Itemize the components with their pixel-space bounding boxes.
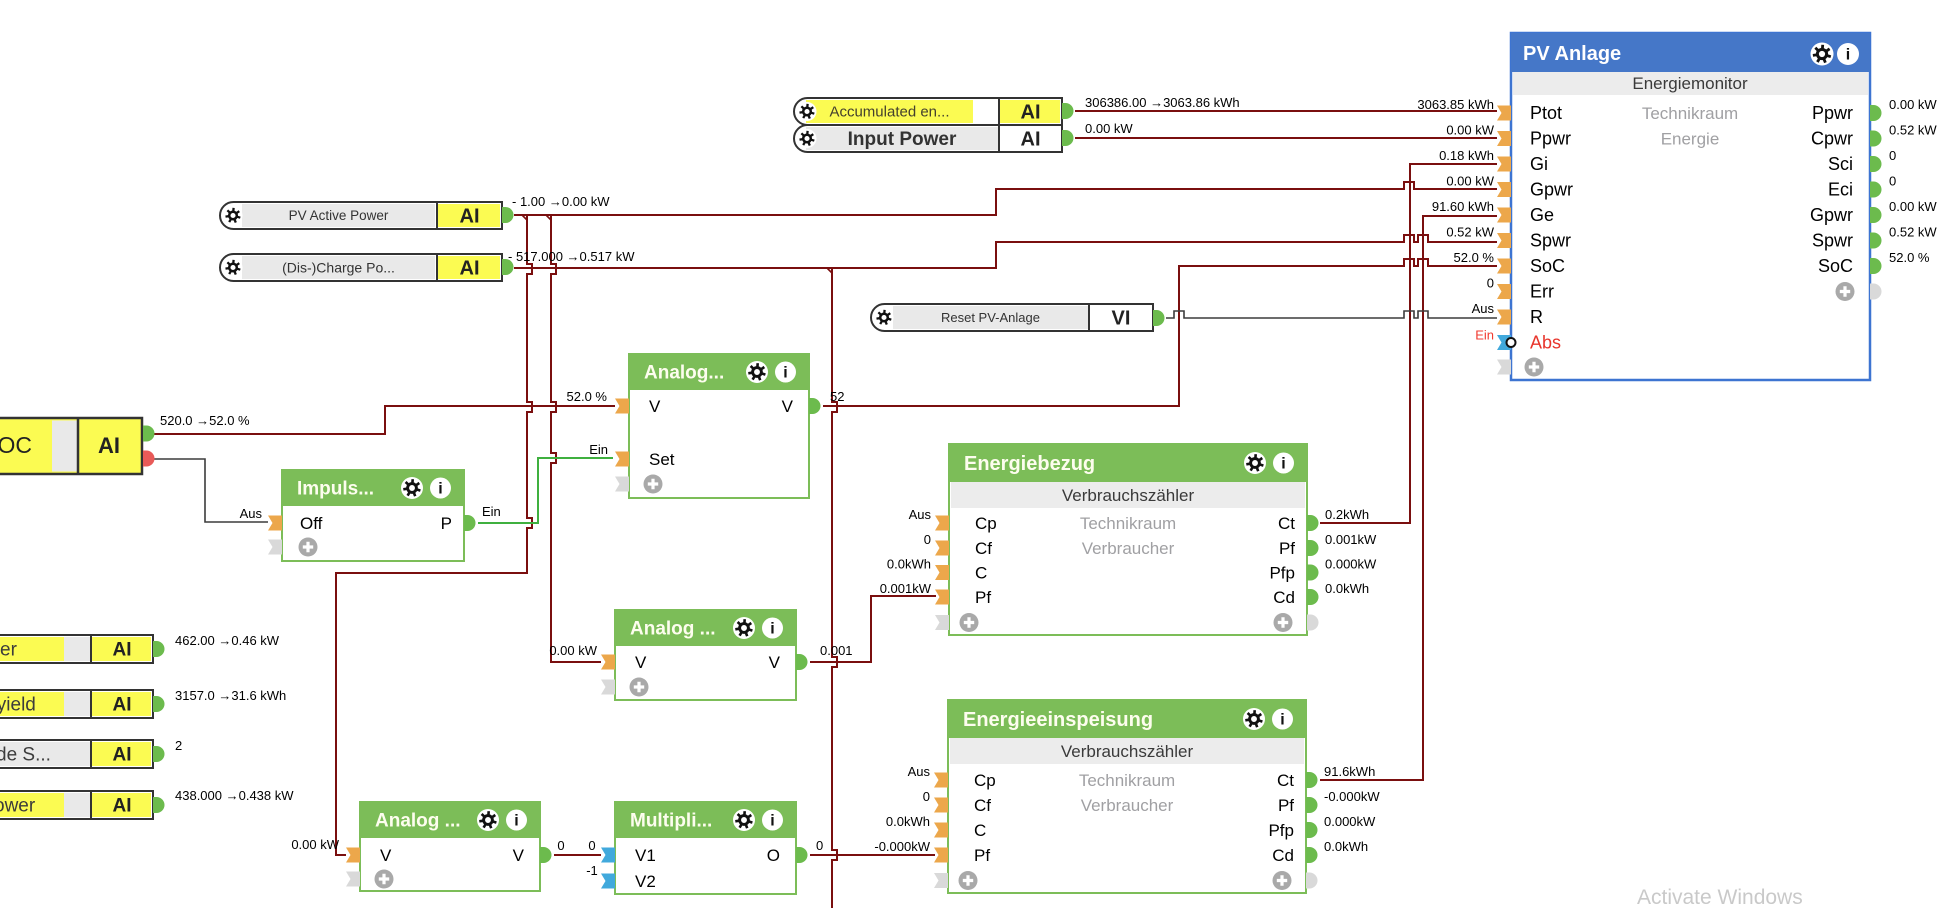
svg-text:V: V	[635, 653, 647, 672]
svg-text:i: i	[1846, 47, 1850, 64]
svg-text:Ge: Ge	[1530, 205, 1554, 225]
function block "Energiebezug" (Verbrauchszaehler)	[949, 444, 1307, 635]
svg-text:Reset PV-Anlage: Reset PV-Anlage	[941, 310, 1040, 325]
svg-text:Pfp: Pfp	[1269, 564, 1295, 583]
svg-text:Impuls...: Impuls...	[297, 478, 374, 499]
block AI "...ower" (cut off)	[0, 791, 153, 819]
block AI "...OC" (SOC, cut off)	[0, 418, 142, 474]
svg-text:-0.000kW: -0.000kW	[1324, 789, 1380, 804]
svg-text:V: V	[513, 846, 525, 865]
svg-text:2: 2	[175, 738, 182, 753]
function block "Impuls..."	[282, 470, 464, 561]
block VI "Reset PV-Anlage"	[871, 304, 1153, 331]
svg-text:Eci: Eci	[1828, 180, 1853, 200]
function block "PV Anlage" (Energiemonitor)	[1511, 33, 1870, 380]
svg-text:V: V	[649, 397, 661, 416]
svg-text:3063.85 kWh: 3063.85 kWh	[1417, 97, 1494, 112]
svg-text:AI: AI	[113, 745, 132, 766]
svg-text:0.18 kWh: 0.18 kWh	[1439, 148, 1494, 163]
svg-text:0: 0	[923, 789, 930, 804]
svg-text:Cf: Cf	[974, 796, 991, 815]
svg-text:0: 0	[924, 532, 931, 547]
svg-text:Verbraucher: Verbraucher	[1081, 796, 1174, 815]
svg-text:de S...: de S...	[0, 745, 51, 766]
svg-text:i: i	[514, 813, 518, 830]
svg-text:V2: V2	[635, 872, 656, 891]
svg-text:Gpwr: Gpwr	[1530, 180, 1573, 200]
wire	[478, 458, 613, 523]
svg-text:SoC: SoC	[1530, 256, 1565, 276]
wire	[514, 182, 1497, 215]
svg-text:Cd: Cd	[1273, 588, 1295, 607]
svg-text:PV Active Power: PV Active Power	[289, 208, 389, 223]
svg-text:AI: AI	[113, 695, 132, 716]
svg-text:Energie: Energie	[1661, 130, 1720, 149]
wire	[810, 596, 936, 662]
svg-text:Aus: Aus	[908, 764, 931, 779]
svg-text:C: C	[975, 564, 987, 583]
svg-text:Energieeinspeisung: Energieeinspeisung	[963, 709, 1153, 731]
svg-text:0: 0	[1487, 276, 1494, 291]
wire	[1320, 216, 1497, 780]
svg-text:Pfp: Pfp	[1268, 821, 1294, 840]
svg-text:0: 0	[816, 838, 823, 853]
svg-text:Aus: Aus	[909, 507, 932, 522]
svg-text:462.00 →0.46 kW: 462.00 →0.46 kW	[175, 633, 280, 648]
svg-text:ower: ower	[0, 796, 36, 817]
svg-text:Set: Set	[649, 450, 675, 469]
svg-text:Aus: Aus	[240, 506, 263, 521]
svg-text:Pf: Pf	[1278, 796, 1294, 815]
wire	[1075, 137, 1497, 139]
svg-text:Cf: Cf	[975, 539, 992, 558]
svg-text:0.00 kW: 0.00 kW	[291, 837, 339, 852]
svg-text:0.2kWh: 0.2kWh	[1325, 507, 1369, 522]
svg-text:91.60 kWh: 91.60 kWh	[1432, 199, 1494, 214]
svg-text:PV Anlage: PV Anlage	[1523, 43, 1621, 65]
svg-text:Abs: Abs	[1530, 333, 1561, 353]
svg-text:-0.000kW: -0.000kW	[874, 839, 930, 854]
function block "Analog..." (bottom left)	[360, 802, 540, 891]
svg-text:(Dis-)Charge Po...: (Dis-)Charge Po...	[282, 259, 395, 275]
svg-text:Spwr: Spwr	[1812, 231, 1853, 251]
svg-text:Off: Off	[300, 514, 323, 533]
svg-text:VI: VI	[1112, 307, 1131, 329]
svg-text:i: i	[770, 813, 774, 830]
svg-text:er: er	[0, 640, 18, 661]
svg-text:3157.0 →31.6 kWh: 3157.0 →31.6 kWh	[175, 688, 286, 703]
wire	[551, 214, 601, 662]
svg-text:i: i	[770, 621, 774, 638]
svg-text:0.001kW: 0.001kW	[880, 581, 932, 596]
svg-text:AI: AI	[113, 796, 132, 817]
svg-text:Analog ...: Analog ...	[630, 618, 716, 639]
svg-text:52.0 %: 52.0 %	[1889, 250, 1930, 265]
svg-text:Cpwr: Cpwr	[1811, 129, 1853, 149]
svg-text:Sci: Sci	[1828, 154, 1853, 174]
svg-text:Pf: Pf	[974, 846, 990, 865]
svg-text:0.00 kW: 0.00 kW	[1889, 199, 1937, 214]
function block "Multipli..."	[615, 802, 796, 894]
svg-text:0.00 kW: 0.00 kW	[1889, 97, 1937, 112]
svg-text:V: V	[782, 397, 794, 416]
svg-text:AI: AI	[113, 640, 132, 661]
svg-text:Ppwr: Ppwr	[1812, 103, 1853, 123]
svg-text:i: i	[1280, 712, 1284, 729]
svg-text:Ein: Ein	[482, 504, 501, 519]
svg-text:52: 52	[830, 389, 844, 404]
svg-text:Cp: Cp	[975, 514, 997, 533]
svg-text:Ein: Ein	[1475, 328, 1494, 343]
function block "Analog..." (0.001)	[615, 610, 796, 700]
svg-text:Analog...: Analog...	[644, 362, 724, 383]
svg-text:Aus: Aus	[1472, 301, 1495, 316]
svg-text:0.52 kW: 0.52 kW	[1446, 225, 1494, 240]
svg-text:V: V	[380, 846, 392, 865]
svg-text:AI: AI	[98, 433, 120, 458]
wire	[152, 406, 615, 434]
svg-text:0.0kWh: 0.0kWh	[1325, 581, 1369, 596]
svg-text:AI: AI	[460, 205, 480, 227]
svg-text:0: 0	[1889, 174, 1896, 189]
svg-text:0: 0	[557, 838, 564, 853]
svg-text:0.52 kW: 0.52 kW	[1889, 123, 1937, 138]
wire	[152, 459, 268, 522]
svg-text:Ein: Ein	[589, 442, 608, 457]
svg-text:Verbrauchszähler: Verbrauchszähler	[1061, 742, 1194, 761]
svg-text:Activate Windows: Activate Windows	[1637, 886, 1803, 908]
wire	[336, 214, 532, 855]
svg-text:Cp: Cp	[974, 771, 996, 790]
wire	[554, 854, 601, 856]
block AI "(Dis-)Charge Po..."	[220, 254, 502, 281]
svg-text:Ct: Ct	[1278, 514, 1295, 533]
svg-text:- 517.000 →0.517 kW: - 517.000 →0.517 kW	[508, 249, 635, 264]
svg-text:Ct: Ct	[1277, 771, 1294, 790]
svg-text:Cd: Cd	[1272, 846, 1294, 865]
svg-text:OC: OC	[0, 432, 32, 458]
svg-text:i: i	[438, 481, 442, 498]
wire	[1320, 164, 1497, 523]
svg-text:Energiebezug: Energiebezug	[964, 453, 1095, 475]
svg-text:0.0kWh: 0.0kWh	[1324, 839, 1368, 854]
wire	[823, 259, 1497, 406]
svg-text:V1: V1	[635, 846, 656, 865]
function block "Analog..." (memory, 52)	[629, 354, 809, 498]
wire	[832, 268, 837, 908]
plus expander right	[1836, 282, 1855, 301]
svg-text:0.000kW: 0.000kW	[1325, 557, 1377, 572]
svg-text:0.000kW: 0.000kW	[1324, 814, 1376, 829]
svg-text:Gi: Gi	[1530, 154, 1548, 174]
svg-text:- 1.00 →0.00 kW: - 1.00 →0.00 kW	[512, 194, 610, 209]
svg-text:P: P	[441, 514, 452, 533]
svg-text:Ppwr: Ppwr	[1530, 129, 1571, 149]
block AI "...y yield" (cut off)	[0, 690, 153, 718]
svg-text:AI: AI	[460, 257, 480, 279]
svg-text:0.52 kW: 0.52 kW	[1889, 225, 1937, 240]
svg-text:91.6kWh: 91.6kWh	[1324, 764, 1375, 779]
svg-text:0.00 kW: 0.00 kW	[1446, 123, 1494, 138]
svg-text:Spwr: Spwr	[1530, 231, 1571, 251]
block AI "...er" (cut off)	[0, 635, 153, 663]
svg-text:Pf: Pf	[1279, 539, 1295, 558]
svg-text:0.001kW: 0.001kW	[1325, 532, 1377, 547]
svg-text:Gpwr: Gpwr	[1810, 205, 1853, 225]
wire	[514, 235, 1497, 268]
function block "Energieeinspeisung" (Verbrauchszaehler)	[948, 700, 1306, 893]
svg-text:Err: Err	[1530, 282, 1554, 302]
svg-text:Verbrauchszähler: Verbrauchszähler	[1062, 486, 1195, 505]
svg-text:0.001: 0.001	[820, 643, 853, 658]
svg-text:SoC: SoC	[1818, 256, 1853, 276]
svg-text:Multipli...: Multipli...	[630, 810, 712, 831]
wire	[1166, 311, 1497, 318]
svg-text:-1: -1	[586, 863, 598, 878]
block AI "Input Power"	[794, 125, 1062, 152]
svg-text:52.0 %: 52.0 %	[567, 389, 608, 404]
block AI "Accumulated en..."	[794, 98, 1062, 125]
svg-text:AI: AI	[1021, 101, 1041, 123]
svg-text:Energiemonitor: Energiemonitor	[1632, 74, 1748, 93]
svg-text:R: R	[1530, 307, 1543, 327]
svg-text:Ptot: Ptot	[1530, 103, 1562, 123]
svg-text:520.0 →52.0 %: 520.0 →52.0 %	[160, 413, 250, 428]
svg-text:i: i	[783, 365, 787, 382]
svg-text:i: i	[1281, 456, 1285, 473]
svg-text:0.00 kW: 0.00 kW	[1446, 174, 1494, 189]
svg-text:Technikraum: Technikraum	[1080, 514, 1176, 533]
svg-text:y yield: y yield	[0, 695, 36, 716]
svg-text:438.000 →0.438 kW: 438.000 →0.438 kW	[175, 788, 294, 803]
svg-text:Pf: Pf	[975, 588, 991, 607]
wire	[810, 854, 935, 856]
svg-text:Accumulated en...: Accumulated en...	[829, 104, 949, 121]
svg-text:0.00 kW: 0.00 kW	[1085, 121, 1133, 136]
svg-text:0: 0	[1889, 148, 1896, 163]
svg-text:306386.00 →3063.86 kWh: 306386.00 →3063.86 kWh	[1085, 95, 1240, 110]
svg-text:C: C	[974, 821, 986, 840]
svg-text:0: 0	[588, 838, 595, 853]
svg-text:Input Power: Input Power	[848, 129, 957, 150]
wire	[1075, 110, 1497, 112]
block AI "PV Active Power"	[220, 202, 502, 229]
svg-text:0.00 kW: 0.00 kW	[549, 643, 597, 658]
block AI "...de S..." (cut off)	[0, 740, 153, 768]
svg-text:V: V	[769, 653, 781, 672]
svg-text:Technikraum: Technikraum	[1642, 104, 1738, 123]
svg-text:52.0 %: 52.0 %	[1454, 250, 1495, 265]
svg-text:AI: AI	[1021, 128, 1041, 150]
svg-text:Verbraucher: Verbraucher	[1082, 539, 1175, 558]
svg-text:Technikraum: Technikraum	[1079, 771, 1175, 790]
svg-text:O: O	[767, 846, 780, 865]
svg-text:Analog ...: Analog ...	[375, 810, 461, 831]
svg-text:0.0kWh: 0.0kWh	[887, 557, 931, 572]
svg-text:0.0kWh: 0.0kWh	[886, 814, 930, 829]
plus expander bottom left	[1497, 360, 1511, 375]
